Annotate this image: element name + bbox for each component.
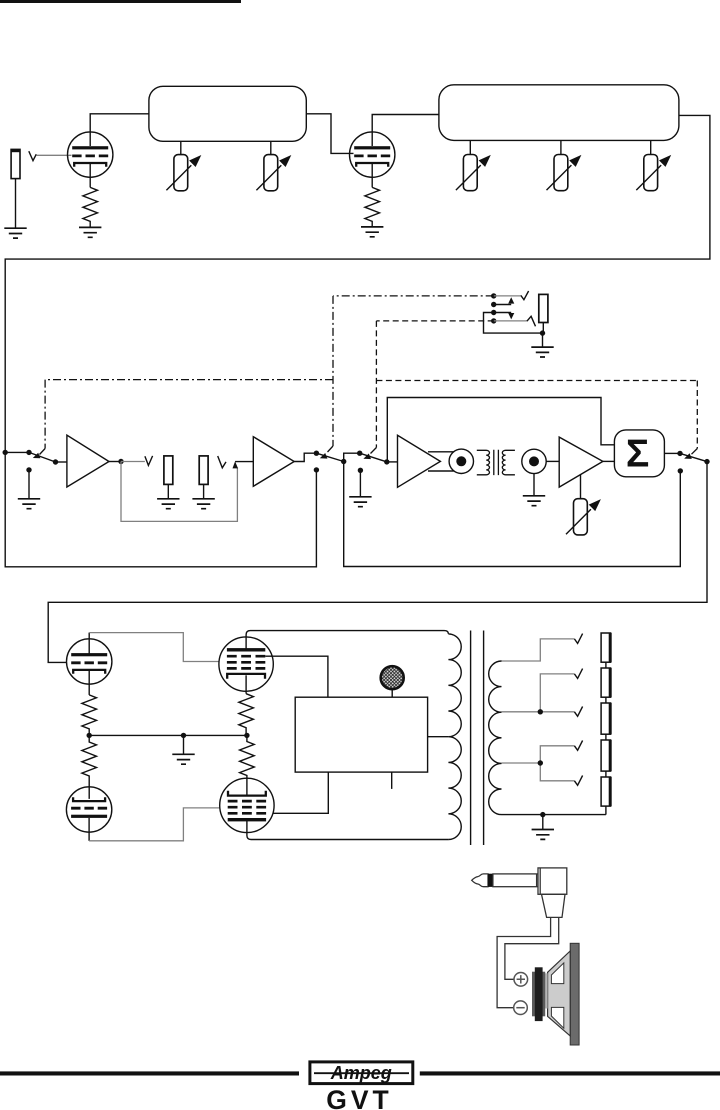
switch SW2 pivot (FX loop engage) bbox=[314, 451, 319, 456]
resistor R1 (V1 cathode) bbox=[83, 187, 98, 227]
speaker spacer bbox=[545, 973, 548, 1008]
wire J3 to ground bbox=[203, 484, 205, 498]
cone cutout upper bbox=[551, 963, 563, 984]
wire CN2 to U4 bbox=[546, 460, 559, 462]
speaker cable bbox=[497, 917, 559, 1007]
transformer core bbox=[471, 631, 484, 846]
switch SW2 throw contact bbox=[341, 459, 346, 464]
speaker tap switch 4 bbox=[574, 741, 582, 751]
resistor R2 (V2 cathode) bbox=[365, 187, 380, 227]
wire CN2 to ground bbox=[533, 474, 535, 496]
potentiometer P5 bbox=[636, 155, 671, 191]
Ampeg logo box bbox=[310, 1062, 413, 1084]
footswitch contact 1 bbox=[521, 291, 529, 300]
op-amp U3 (reverb driver) bbox=[398, 435, 441, 487]
pointer segment onto SW1 arm bbox=[40, 449, 46, 455]
resistor R6 bbox=[240, 735, 255, 795]
wire SW2 throw up to SW3 pivot bbox=[344, 453, 360, 461]
wire V2 cathode bbox=[371, 163, 373, 187]
box B1 (gain block) bbox=[149, 86, 306, 141]
resistor R3 bbox=[82, 695, 97, 736]
op-amp U4 (reverb recovery) bbox=[559, 437, 603, 487]
ground below SW1 bbox=[18, 499, 40, 509]
ground below secondary bbox=[532, 830, 554, 840]
wire node D to node E bbox=[89, 734, 247, 736]
pot lead P4 bbox=[560, 140, 562, 154]
svg-text:GVT: GVT bbox=[326, 1085, 392, 1110]
wire J2 to ground bbox=[167, 484, 169, 498]
wire U4 to summer bbox=[603, 460, 615, 462]
svg-text:Σ: Σ bbox=[626, 433, 649, 476]
FX send jack J2 bbox=[164, 456, 173, 485]
node D bbox=[87, 733, 92, 738]
pot lead P3 bbox=[469, 140, 471, 154]
ground below J2 bbox=[157, 499, 179, 509]
wire SW1 to buffer amp U1 bbox=[56, 461, 67, 463]
speaker jack R9 bbox=[601, 703, 611, 734]
switch SW3 ground contact bbox=[358, 468, 363, 473]
pointer segment onto SW3 arm bbox=[371, 448, 377, 454]
pentode V6 (power tube bottom, mirrored) bbox=[220, 778, 274, 832]
FX return jack J3 bbox=[199, 456, 208, 485]
wire B2 output down left side and bypass loop bbox=[5, 115, 710, 566]
op-amp U2 (FX return amp) bbox=[253, 437, 294, 487]
RCA connector CN2 bbox=[522, 449, 546, 473]
potentiometer P3 bbox=[456, 155, 491, 191]
jack switch contact bbox=[29, 151, 37, 160]
wire V6 screen to supply box bbox=[274, 772, 329, 813]
switch SW2 arm bbox=[316, 453, 343, 461]
switch SW4 throw contact bbox=[704, 459, 709, 464]
wire bracket FS3 to jack sleeve bbox=[484, 313, 543, 334]
wire secondary bottom to jack column bbox=[502, 814, 606, 816]
output transformer T1 secondary winding bbox=[489, 661, 502, 815]
op-amp U1 (FX send buffer) bbox=[67, 435, 109, 487]
node secondary ground bbox=[540, 812, 545, 817]
wire V5 cathode down bbox=[245, 675, 247, 693]
footswitch contact 2 bbox=[527, 316, 536, 326]
wire OT primary bottom to V6 plate bbox=[247, 821, 449, 840]
pointer segment onto SW2 arm bbox=[328, 446, 334, 452]
resistor R4 bbox=[82, 735, 97, 799]
speaker baffle bbox=[570, 943, 579, 1045]
secondary tap node 1 bbox=[538, 709, 543, 714]
node FS5 bbox=[540, 330, 545, 335]
triode V3 (driver top) bbox=[67, 639, 112, 684]
wire supply box to OT primary center tap bbox=[428, 736, 449, 738]
bypass loop wire node B around jacks (grey) bbox=[121, 462, 237, 522]
speaker jack R7 bbox=[601, 633, 611, 662]
cone cutout lower bbox=[551, 1007, 563, 1028]
plug tip bbox=[472, 874, 488, 887]
switch SW1 ground contact bbox=[26, 467, 31, 472]
node E bbox=[244, 733, 249, 738]
switch SW2 bypass contact bbox=[314, 467, 319, 472]
potentiometer P2 bbox=[256, 155, 291, 191]
node C (reverb input) bbox=[384, 459, 389, 464]
wire V4 plate lead down bbox=[88, 818, 90, 841]
speaker magnet outer bbox=[532, 972, 545, 1017]
footswitch jack J4 bbox=[539, 294, 548, 322]
dashed control line FS4 to SW3/SW4 bbox=[376, 321, 697, 449]
speaker cable plug (1/4 inch right-angle) bbox=[472, 868, 567, 918]
wire lamp to supply box bbox=[391, 689, 393, 697]
box B2 (tone stack) bbox=[439, 85, 679, 141]
Ampeg strike line bbox=[314, 1072, 409, 1074]
triode V4 (driver bottom, mirrored) bbox=[66, 787, 111, 832]
switch SW4 arm bbox=[680, 453, 707, 461]
secondary tap wire 3 (grey) bbox=[502, 711, 575, 713]
wire node C to reverb driver U3 bbox=[387, 461, 398, 463]
output transformer T1 primary winding bbox=[448, 634, 461, 840]
wire V1 cathode bbox=[89, 163, 91, 187]
wire mid node to ground bbox=[183, 735, 185, 754]
pentode V5 (power tube top) bbox=[219, 637, 273, 691]
pot lead P6 bbox=[580, 475, 582, 499]
plug insulator ring bbox=[488, 874, 493, 887]
wire jack to V1 grid bbox=[36, 154, 71, 156]
speaker tap switch 3 bbox=[574, 707, 582, 717]
power supply box B3 bbox=[295, 697, 427, 772]
reverb bypass loop wire bbox=[344, 462, 681, 567]
shaft end line bbox=[536, 874, 538, 887]
wire return to amp U2 bbox=[235, 461, 253, 463]
potentiometer P6 (reverb level) bbox=[566, 499, 601, 535]
ground for R2 bbox=[361, 227, 383, 237]
return jack switch contact bbox=[218, 456, 226, 468]
secondary tap wire 1 (grey) bbox=[502, 639, 575, 661]
wire V1 plate to box B1 bbox=[90, 114, 149, 146]
arrow head of bypass loop wire bbox=[233, 461, 239, 468]
wire V5 screen to supply box bbox=[265, 656, 328, 697]
plug body bbox=[538, 868, 567, 894]
wire V3 plate to V5 grid (grey) bbox=[89, 633, 219, 662]
header bar bbox=[0, 0, 241, 3]
ground below SW3 bbox=[349, 497, 371, 507]
secondary tap wire 4 (grey) bbox=[502, 746, 575, 781]
switch SW4 bypass contact bbox=[678, 468, 683, 473]
switch SW1 arm bbox=[29, 452, 56, 462]
node FS1 bbox=[491, 293, 496, 298]
node A (left edge to FX switch) bbox=[2, 450, 7, 455]
wire FS5 to ground bbox=[542, 333, 544, 347]
triode V2 bbox=[350, 132, 395, 177]
send jack switch contact bbox=[145, 456, 153, 466]
wire V5 plate to OT primary top bbox=[246, 631, 448, 650]
secondary tap node 2 bbox=[538, 760, 543, 765]
speaker jack R11 bbox=[601, 777, 611, 806]
actuator arrow down bbox=[494, 312, 512, 314]
speaker tap switch 5 bbox=[574, 776, 582, 786]
speaker jack R8 bbox=[601, 668, 611, 697]
potentiometer P4 bbox=[547, 155, 582, 191]
pot lead P1 bbox=[180, 141, 182, 154]
pot lead P2 bbox=[270, 141, 272, 154]
potentiometer P1 bbox=[166, 155, 201, 191]
reverb tank transformer T2 bbox=[477, 450, 515, 475]
wire FS4 to switch contact (grey) bbox=[494, 320, 527, 322]
stub below supply box bbox=[391, 772, 393, 789]
speaker cone bbox=[548, 951, 571, 1036]
input jack J1 bbox=[11, 149, 21, 228]
actuator arrow up bbox=[494, 304, 512, 306]
wire V3 cathode down bbox=[88, 670, 90, 695]
node FS3 bbox=[491, 310, 496, 315]
node FS2 bbox=[491, 302, 496, 307]
ground below J3 bbox=[192, 499, 214, 509]
secondary tap wire 2 (grey) bbox=[540, 674, 574, 712]
footer rule right bbox=[420, 1071, 720, 1075]
wire U5 output bbox=[664, 452, 680, 454]
wire U2 output step up to SW2 bbox=[294, 453, 316, 461]
wire pair U3 to RCA plug bbox=[428, 452, 454, 471]
pot lead P5 bbox=[650, 140, 652, 154]
wire SW3 ground contact to ground bbox=[359, 470, 361, 497]
switch SW1 throw contact bbox=[53, 459, 58, 464]
switch SW3 pivot (reverb engage) bbox=[357, 451, 362, 456]
plug shaft bbox=[493, 874, 538, 887]
ground for R1 bbox=[79, 227, 101, 237]
wire FS1 to switch contact (grey) bbox=[494, 295, 521, 297]
ground below footswitch jack bbox=[531, 347, 553, 357]
minus terminal bbox=[514, 1001, 528, 1015]
switch SW4 pivot (output) bbox=[677, 451, 682, 456]
ground below CN2 bbox=[523, 496, 545, 506]
ground for input jack bbox=[4, 228, 26, 238]
wire U1 output to node B bbox=[109, 461, 121, 463]
node mid ground bbox=[181, 733, 186, 738]
wire SW4 down and across to power amp bbox=[48, 462, 707, 663]
wire jack J4 sleeve down bbox=[542, 323, 544, 334]
switch SW3 arm bbox=[360, 453, 387, 462]
summing block U5 bbox=[614, 430, 664, 477]
wire V2 plate to box B2 bbox=[372, 115, 439, 147]
wire node A to switch SW1 bbox=[5, 451, 29, 453]
node B bbox=[118, 459, 123, 464]
wire B1 to V2 grid bbox=[306, 114, 353, 154]
triode V1 bbox=[68, 132, 113, 177]
wire to secondary ground bbox=[542, 815, 544, 830]
plus terminal bbox=[514, 973, 528, 987]
wire node B to send jack switch bbox=[121, 461, 145, 463]
speaker tap switch 2 bbox=[574, 669, 582, 679]
strain relief bbox=[542, 894, 566, 917]
jack column connector wires bbox=[605, 662, 607, 814]
ground center of power amp bbox=[172, 754, 194, 764]
node FS4 bbox=[491, 318, 496, 323]
wire SW1 ground contact to ground bbox=[28, 470, 30, 499]
wire V4 plate to V6 grid (grey) bbox=[89, 808, 220, 841]
speaker tap switch 1 bbox=[574, 634, 582, 644]
speaker magnet core bbox=[535, 967, 543, 1021]
pointer segment onto SW4 arm bbox=[692, 449, 698, 455]
dry signal wire to summer bbox=[387, 398, 614, 462]
body collar line bbox=[539, 868, 541, 894]
footer rule left bbox=[0, 1071, 299, 1075]
dash-dot control line FS1 to SW2/SW1 bbox=[45, 296, 494, 449]
RCA connector CN1 bbox=[449, 449, 473, 473]
pilot lamp bbox=[381, 666, 404, 689]
speaker jack R10 bbox=[601, 740, 611, 771]
wire V3 plate lead up bbox=[88, 633, 90, 655]
switch SW1 pivot bbox=[26, 450, 31, 455]
resistor R5 bbox=[239, 694, 254, 736]
